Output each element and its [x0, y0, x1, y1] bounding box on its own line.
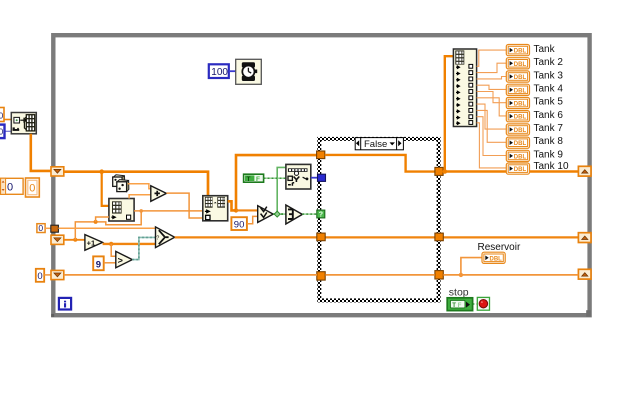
- increment +1: [85, 235, 103, 251]
- wire: 100 to wait: [229, 70, 236, 72]
- wire: inside case from top-left tunnel to right tunnel: [325, 155, 435, 172]
- case right tunnel (mid): [435, 233, 443, 241]
- junction on index wire: [139, 209, 143, 213]
- svg-text:Tank 6: Tank 6: [534, 110, 564, 121]
- wait (ms) metronome icon: [236, 59, 262, 84]
- wire: SR2 riser branch: [75, 222, 95, 240]
- svg-text:Tank 10: Tank 10: [534, 161, 569, 172]
- wire: index array top out to add function: [129, 195, 151, 199]
- wire: RAS out right and up to case tunnel: [228, 155, 317, 210]
- svg-text:stop: stop: [449, 286, 469, 298]
- svg-text:Tank 9: Tank 9: [534, 149, 564, 160]
- wire: SR1 branch down to index array: [102, 172, 109, 206]
- replace array subset U3: [203, 196, 228, 221]
- svg-text:DBL: DBL: [490, 256, 503, 262]
- reservoir DBL indicator: [482, 252, 505, 263]
- case structure border: [319, 139, 438, 301]
- svg-text:F: F: [256, 176, 260, 183]
- right shift register (mid): [578, 233, 591, 243]
- numeric constant 9: [93, 256, 104, 270]
- svg-text:Tank 7: Tank 7: [534, 123, 564, 134]
- wire: dice to add function: [128, 184, 151, 189]
- tank DBL indicators and labels: [506, 44, 569, 174]
- junction on SR1 wire: [99, 169, 104, 174]
- wire: SR3 across loop to right SR: [64, 274, 317, 276]
- svg-text:?: ?: [156, 236, 159, 242]
- svg-text:0: 0: [7, 182, 13, 194]
- svg-text:0: 0: [29, 183, 35, 195]
- input tunnel (solid) on loop border: [51, 225, 59, 232]
- svg-text:90: 90: [234, 219, 245, 230]
- iteration terminal i: [59, 298, 71, 310]
- wire: stop to conditional terminal: [473, 303, 477, 305]
- svg-text:0: 0: [37, 271, 42, 282]
- wire: boolean riser to search icon: [277, 167, 286, 214]
- junction to index array riser: [443, 169, 448, 174]
- case selector terminal ?: [317, 210, 325, 219]
- junction on SR2 wire: [73, 238, 77, 242]
- svg-text:+1: +1: [87, 239, 96, 248]
- wire: branch up to reservoir indicator: [461, 258, 482, 275]
- left shift register SR3: [51, 270, 64, 279]
- junction node: [94, 220, 98, 224]
- constant (cut off) blue at left edge: [0, 125, 5, 139]
- svg-text:Reservoir: Reservoir: [478, 242, 521, 253]
- svg-text:>: >: [118, 255, 123, 265]
- add function: [151, 186, 167, 202]
- svg-text:F: F: [458, 303, 462, 309]
- svg-text:Tank 8: Tank 8: [534, 136, 564, 147]
- case left tunnel (mid, orange): [317, 233, 325, 241]
- numeric constant 100: [209, 64, 229, 78]
- numeric control 0 (left edge, with spinner): [1, 178, 24, 194]
- wire: +1 out to select function: [103, 243, 156, 245]
- numeric constant 0 (orange, left edge): [26, 178, 40, 197]
- case right tunnel (top): [435, 167, 443, 175]
- numeric constant 0 (to tunnel): [37, 223, 45, 233]
- greater-than function: [116, 251, 133, 267]
- svg-text:Tank: Tank: [534, 44, 556, 55]
- loop conditional terminal (red stop button): [477, 297, 489, 310]
- case left tunnel (blue): [318, 174, 326, 181]
- case right tunnel (bottom): [435, 271, 443, 279]
- junction on RAS out: [234, 208, 238, 212]
- wire: case right tunnel to right shift register: [443, 170, 578, 173]
- index array U2: [109, 199, 134, 222]
- wire: riser up to big index array: [445, 56, 454, 171]
- wire: branch to index array lower input: [96, 217, 109, 222]
- svg-text:0: 0: [0, 127, 4, 137]
- wire: TF to search icon (boolean dashed): [264, 177, 286, 179]
- svg-text:9: 9: [96, 259, 101, 270]
- junction for reservoir branch: [459, 273, 463, 277]
- wire: branch down from junction: [96, 211, 142, 225]
- wire: SR1 across to replace-array-subset (thick orange): [64, 172, 208, 196]
- random number dice icon: [113, 175, 129, 192]
- svg-text:Tank 3: Tank 3: [534, 70, 564, 81]
- right shift register (top): [578, 166, 591, 176]
- search 1D array U4: [286, 164, 311, 189]
- exists / array-to-number function: [286, 205, 302, 224]
- wire: 9 to greater-than: [104, 262, 116, 264]
- case left tunnel (bottom, orange): [317, 272, 325, 280]
- svg-text:0: 0: [38, 223, 43, 233]
- boolean junction diamond: [274, 211, 280, 217]
- wire: constant into initialize array (blue): [0, 130, 12, 132]
- wire: search out (blue) to case tunnel: [311, 177, 318, 179]
- svg-text:Tank 4: Tank 4: [534, 84, 564, 95]
- svg-text:False: False: [364, 139, 387, 150]
- wire: 90 to greater-or-equal: [247, 216, 258, 223]
- svg-text:T: T: [247, 176, 251, 183]
- wire: exists out to case selector: [302, 213, 317, 215]
- wire: select out across case to right SR (long orange): [175, 236, 317, 238]
- right shift register (bottom): [578, 269, 591, 279]
- svg-text:0: 0: [0, 111, 4, 121]
- case left tunnel (top, orange): [317, 151, 325, 159]
- svg-text:Tank 2: Tank 2: [534, 57, 564, 68]
- stop boolean terminal: [447, 298, 472, 311]
- junction on +1 wire: [109, 242, 113, 246]
- svg-text:T: T: [452, 303, 456, 309]
- numeric constant 90: [231, 217, 247, 230]
- wire: index array out to replace array subset: [134, 210, 203, 212]
- while loop border: [53, 35, 589, 315]
- numeric constant 0 (bottom left): [36, 269, 44, 282]
- wire: branch down to greater-than: [111, 244, 116, 256]
- initialize array U1: [11, 113, 36, 134]
- wire: 0 constant to tunnel: [45, 227, 51, 229]
- boolean constant TF: [244, 174, 264, 183]
- svg-text:100: 100: [211, 67, 228, 78]
- wire: 0 to SR3: [44, 274, 51, 276]
- svg-text:?: ?: [319, 212, 323, 219]
- wire: branch to greater-or-equal: [236, 209, 258, 211]
- wire: greater-than out to select (boolean teal): [132, 237, 155, 259]
- left shift register SR2: [51, 235, 64, 244]
- case selector label "False": [355, 138, 403, 150]
- wire: tunnel to select function: [58, 227, 156, 229]
- greater-or-equal function: [258, 206, 274, 223]
- wire: initialize array to left shift register SR1: [31, 134, 51, 171]
- svg-text:DBL: DBL: [514, 49, 527, 55]
- wire: constant into initialize array (orange): [0, 119, 12, 121]
- wire: add out to replace array subset: [166, 193, 202, 218]
- svg-text:Tank 5: Tank 5: [534, 97, 564, 108]
- left shift register SR1: [51, 167, 64, 176]
- constant (cut off) orange at left edge: [0, 108, 4, 122]
- wire: geq out boolean to junction and exists: [273, 213, 286, 215]
- wire: SR2 to increment: [64, 239, 85, 241]
- big index array U5: [453, 49, 476, 127]
- select function: [156, 227, 175, 248]
- wires: index array outputs to tank indicators: [477, 50, 507, 168]
